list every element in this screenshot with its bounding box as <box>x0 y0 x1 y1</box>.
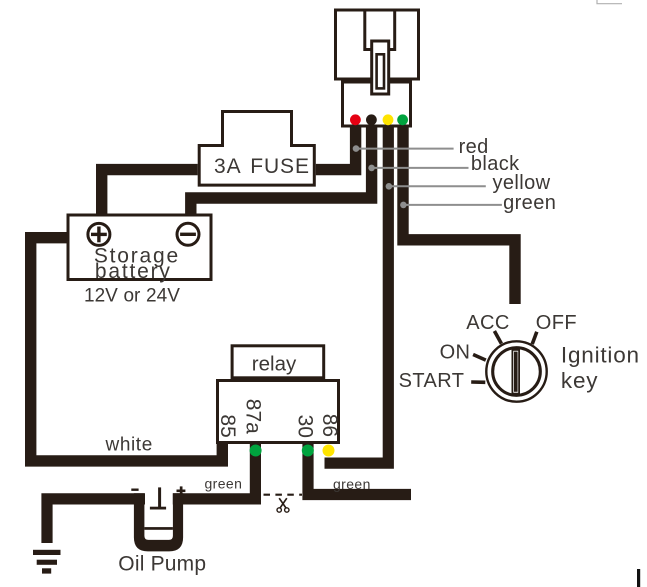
pin dot green <box>397 114 408 125</box>
spoke OFF <box>532 332 537 344</box>
spoke ON <box>473 355 486 361</box>
svg-text:85: 85 <box>216 414 239 437</box>
connector base <box>343 82 411 126</box>
connector center tab <box>372 41 389 94</box>
wire: black from connector pin to battery minus <box>191 127 372 216</box>
svg-text:12V or 24V: 12V or 24V <box>84 285 180 306</box>
stray cursor mark bottom right <box>637 569 640 587</box>
spoke START <box>471 380 485 384</box>
svg-text:30: 30 <box>294 415 317 438</box>
svg-text:ACC: ACC <box>466 312 509 334</box>
relay main box <box>218 381 339 443</box>
leader yellow <box>386 183 393 190</box>
connector top notch <box>365 10 395 50</box>
svg-text:key: key <box>561 368 598 393</box>
wire: green from connector pin to ignition key <box>403 127 515 304</box>
svg-text:yellow: yellow <box>493 172 551 194</box>
oil pump level line <box>144 527 173 530</box>
spoke ACC <box>494 331 501 344</box>
svg-text:green: green <box>503 192 556 214</box>
pin dot red <box>350 114 361 125</box>
svg-text:START: START <box>399 370 465 392</box>
oil pump electrode <box>158 487 161 507</box>
svg-text:white: white <box>105 434 153 455</box>
wire: relay 30 down and right (cut end) <box>308 443 411 495</box>
svg-text:relay: relay <box>252 353 297 376</box>
svg-text:battery: battery <box>95 260 172 283</box>
svg-text:green: green <box>205 476 243 492</box>
wire: red from connector pin to fuse (right segment) <box>316 127 356 170</box>
ignition key inner circle <box>493 348 541 396</box>
cut dashed line <box>264 494 303 496</box>
ignition key outer circle <box>486 341 546 401</box>
ground symbol <box>33 550 61 555</box>
svg-text:86: 86 <box>318 414 341 437</box>
battery box <box>68 215 211 280</box>
relay pin dot 30 green <box>302 445 314 457</box>
leader green <box>400 202 407 209</box>
svg-text:ON: ON <box>440 342 471 364</box>
wire: battery plus to fuse (left segment) <box>102 170 198 216</box>
oil pump plus sign <box>177 490 186 493</box>
oil pump minus sign <box>131 489 138 491</box>
battery plus terminal <box>88 223 110 245</box>
relay pin dot 86 yellow <box>323 445 335 457</box>
relay top box <box>232 346 324 378</box>
svg-text:OFF: OFF <box>536 312 577 334</box>
connector tab slot <box>377 54 384 88</box>
connector body <box>336 10 419 79</box>
wire: yellow from connector pin down to relay 86 <box>325 127 389 463</box>
wire: relay 87a to oil pump and ground <box>47 499 145 543</box>
leader red <box>353 145 360 152</box>
pin dot black <box>366 114 377 125</box>
scissors <box>277 498 289 512</box>
ignition key slot <box>512 350 519 394</box>
svg-text:87a: 87a <box>241 399 264 434</box>
fuse box (T shape) <box>199 112 314 186</box>
pin dot yellow <box>383 114 394 125</box>
battery minus terminal <box>177 223 199 245</box>
svg-text:Ignition: Ignition <box>561 343 640 368</box>
svg-text:Oil Pump: Oil Pump <box>118 552 206 575</box>
svg-text:green: green <box>333 476 371 492</box>
relay pin dot 87a green <box>250 445 262 457</box>
leader black <box>368 165 375 172</box>
wire: white from battery left down to relay 85 <box>31 238 223 461</box>
stray corner mark top right <box>597 0 622 4</box>
oil pump body <box>134 493 183 551</box>
svg-text:3A FUSE: 3A FUSE <box>214 155 310 178</box>
